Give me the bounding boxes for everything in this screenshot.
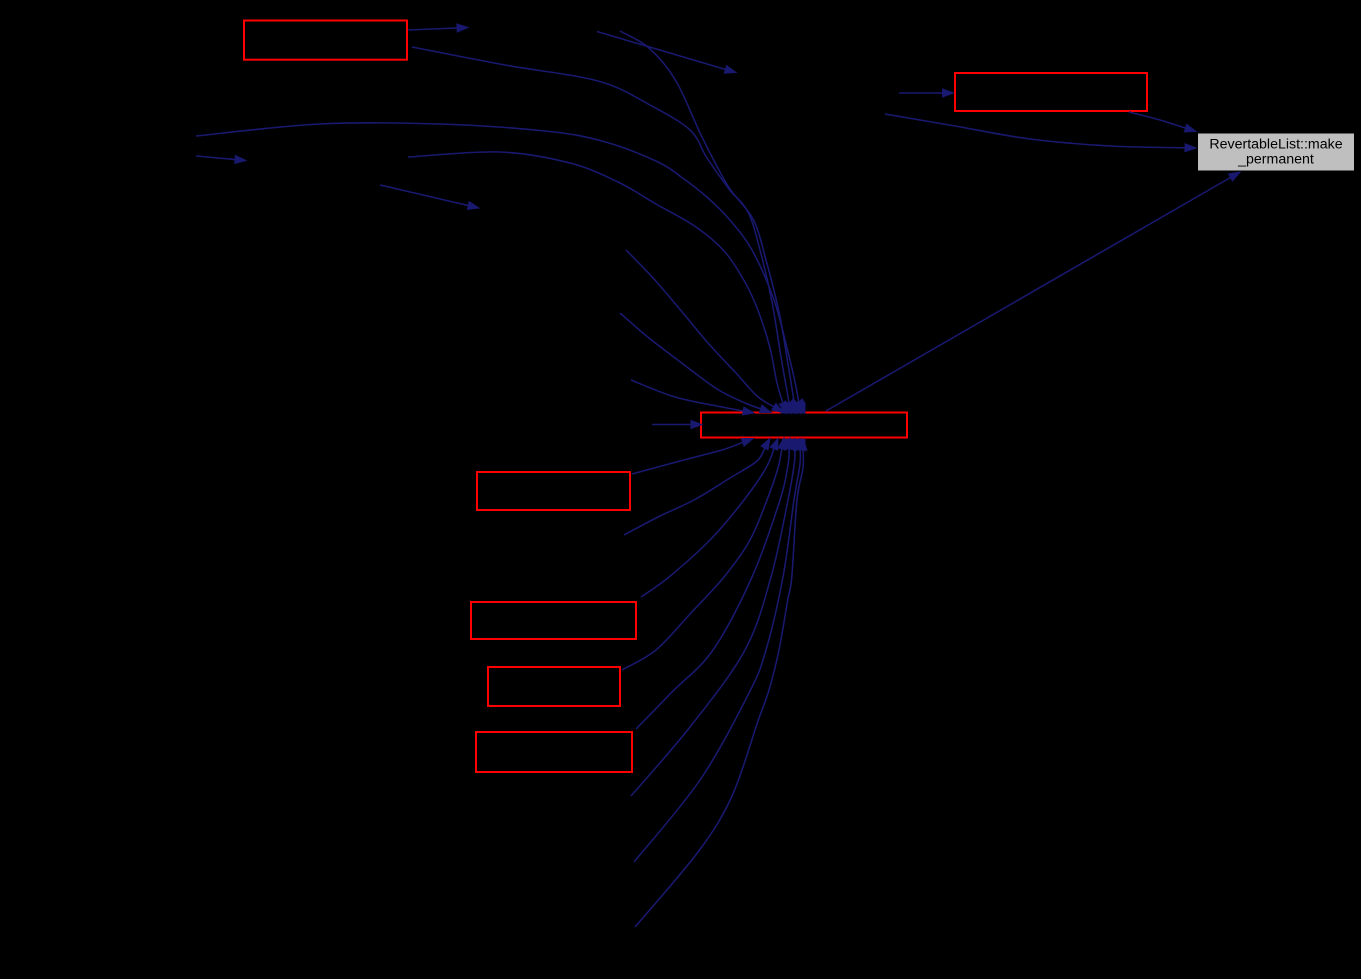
node boxC (hidden label) xyxy=(488,667,620,706)
edge M2 top-cross xyxy=(597,32,736,74)
edge G1 center-to-permanent xyxy=(826,172,1240,411)
edge T6 mid-to-center xyxy=(620,313,771,413)
edge B2 lower-to-center xyxy=(624,439,770,536)
edge B6 lower-to-center xyxy=(631,439,799,797)
edge T1 topleft-to-center xyxy=(412,47,793,414)
edge A1 topleft-out xyxy=(409,24,469,32)
node boxD (hidden label) xyxy=(476,732,632,772)
edge M1 small-left xyxy=(196,156,246,164)
node topright (hidden label) xyxy=(955,73,1147,111)
edge T2 topnode-to-center xyxy=(620,31,798,414)
node RevertableList::make_permanent (current node, gray) xyxy=(1198,133,1355,171)
node boxA (hidden label) xyxy=(477,472,630,510)
edge T7 mid-to-center xyxy=(631,380,754,415)
edge G2 topright-to-permanent xyxy=(1129,112,1196,132)
edge L1 into-center-left xyxy=(652,421,702,429)
edge T5 mid-to-center xyxy=(626,250,783,413)
node center (hidden label) xyxy=(701,413,907,438)
edge B3 boxB-to-center xyxy=(641,439,778,598)
edge B8 lower-to-center xyxy=(635,439,807,927)
edge B5 boxD-to-center xyxy=(636,438,793,729)
node boxB (hidden label) xyxy=(471,602,636,639)
edge B1 boxA-to-center xyxy=(632,439,753,475)
edge G3 node-to-permanent xyxy=(885,114,1196,152)
edge B7 lower-to-center xyxy=(634,439,804,863)
arrowhead cluster patch bottom of center node xyxy=(782,439,806,453)
edge R1 into-topright xyxy=(899,89,954,97)
edge T4 left-to-center xyxy=(408,152,787,414)
svg-text:RevertableList::make: RevertableList::make xyxy=(1209,137,1342,153)
edge B4 boxC-to-center xyxy=(622,438,786,670)
svg-text:_permanent: _permanent xyxy=(1237,152,1314,168)
node topleft (hidden label) xyxy=(244,21,407,60)
edge M3 left-diagonal xyxy=(380,185,479,209)
edge T3 farleft-to-center xyxy=(196,123,803,414)
arrowhead cluster patch top of center node xyxy=(780,398,806,414)
